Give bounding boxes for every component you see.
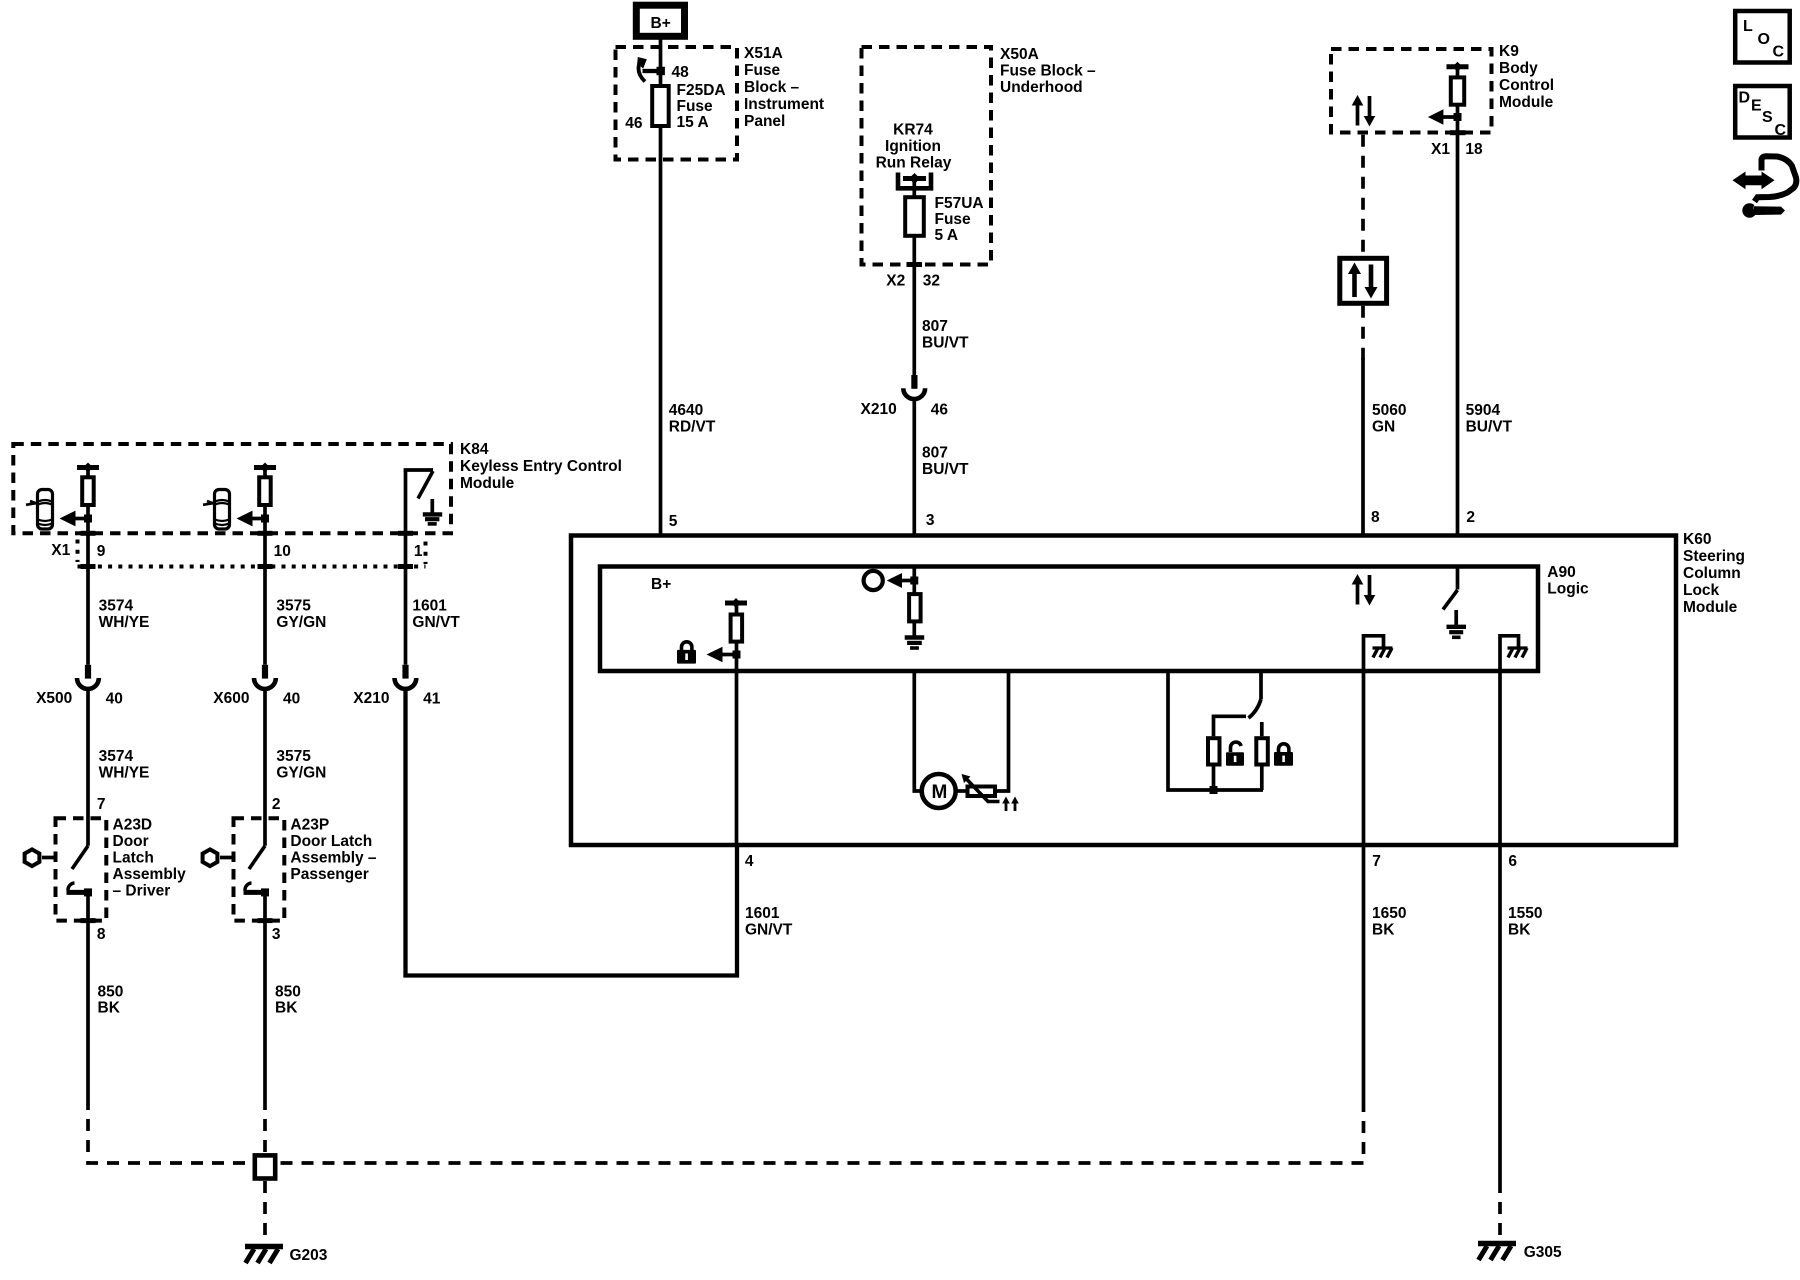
wire pin 6 leg through K60	[1498, 671, 1502, 845]
resistor lock with open contact stub	[1256, 722, 1268, 790]
svg-text:O: O	[1758, 31, 1770, 48]
svg-text:Block –: Block –	[744, 79, 800, 96]
serial data arrows box on wire 5060	[1340, 258, 1387, 303]
wire 850 passenger lower	[263, 892, 267, 1098]
svg-text:K84: K84	[460, 441, 489, 458]
svg-text:X50A: X50A	[1000, 46, 1039, 63]
car icon driver	[26, 490, 53, 530]
svg-text:3575: 3575	[276, 598, 311, 615]
svg-text:X500: X500	[36, 690, 72, 707]
svg-text:GN/VT: GN/VT	[412, 614, 460, 631]
svg-text:K9: K9	[1499, 43, 1519, 60]
svg-text:Instrument: Instrument	[744, 96, 824, 113]
serial data arrows inside A90	[1352, 574, 1376, 606]
dashed ground wire 1550 K60 pin 6	[1498, 845, 1502, 1181]
svg-text:C: C	[1773, 44, 1785, 61]
svg-text:S: S	[1762, 109, 1773, 126]
K9 label	[1499, 43, 1554, 111]
splice S-box	[255, 1155, 275, 1178]
lock output terminal and resistor inside A90	[725, 598, 747, 642]
connector X210 pin 46 inline	[861, 375, 949, 419]
svg-text:3574: 3574	[99, 748, 134, 765]
svg-text:9: 9	[97, 543, 106, 560]
wire motor to thermistor	[956, 789, 966, 793]
svg-text:X600: X600	[213, 690, 249, 707]
svg-text:K60: K60	[1683, 531, 1711, 548]
chassis ground right inside A90	[1500, 636, 1528, 671]
svg-text:BK: BK	[98, 1000, 121, 1017]
svg-text:BU/VT: BU/VT	[922, 461, 969, 478]
tick pin 1	[398, 531, 413, 536]
svg-text:Door: Door	[113, 833, 149, 850]
wire 5904 K9 to K60 pin 2	[1456, 117, 1460, 536]
svg-text:M: M	[932, 782, 948, 803]
svg-text:WH/YE: WH/YE	[99, 765, 150, 782]
motor leg left wire	[914, 671, 921, 791]
X1 pin labels	[51, 542, 423, 560]
svg-text:BK: BK	[1508, 922, 1531, 939]
ground symbol inside K84	[423, 499, 442, 524]
tick pin 3	[258, 918, 273, 923]
svg-text:7: 7	[97, 796, 106, 813]
arrow to car driver with junction	[60, 505, 93, 533]
svg-text:46: 46	[931, 402, 949, 419]
svg-text:Panel: Panel	[744, 113, 785, 130]
svg-text:GY/GN: GY/GN	[276, 614, 326, 631]
svg-text:Assembly –: Assembly –	[290, 850, 377, 867]
X50A label	[1000, 46, 1096, 96]
K9 serial data arrows	[1352, 95, 1376, 127]
svg-text:850: 850	[275, 984, 301, 1001]
keyless entry control module K84 dashed box	[13, 444, 451, 533]
svg-text:7: 7	[1372, 853, 1381, 870]
svg-text:Module: Module	[1683, 599, 1738, 616]
svg-text:BU/VT: BU/VT	[1466, 419, 1513, 436]
door latch assembly passenger A23P dashed box	[234, 818, 285, 920]
wire 3574 X500 to door latch driver	[86, 689, 90, 846]
svg-text:Module: Module	[460, 475, 515, 492]
svg-text:10: 10	[274, 543, 291, 560]
latch contact passenger	[244, 883, 270, 896]
svg-text:A23P: A23P	[290, 817, 329, 834]
svg-text:G203: G203	[290, 1247, 328, 1264]
logic block A90 box	[600, 567, 1538, 672]
A23D label	[113, 817, 187, 900]
wire 4640 B+ to K60 pin 5	[659, 39, 663, 536]
svg-text:48: 48	[672, 64, 690, 81]
svg-text:5 A: 5 A	[935, 227, 959, 244]
svg-text:Passenger: Passenger	[290, 866, 368, 883]
wire K60 pin 4 leg from lock junction	[735, 655, 739, 846]
svg-text:3: 3	[926, 512, 935, 529]
connector X600 pin 40 inline	[213, 665, 300, 708]
svg-text:3: 3	[272, 926, 281, 943]
wire 5060 dashed from K9	[1361, 135, 1365, 256]
svg-text:RD/VT: RD/VT	[669, 419, 716, 436]
motor M	[922, 774, 956, 808]
svg-text:Door Latch: Door Latch	[290, 833, 372, 850]
svg-text:Ignition: Ignition	[885, 138, 941, 155]
fuse block X50A dashed box	[862, 47, 992, 265]
dashed ground wire driver to splice	[88, 1098, 250, 1163]
svg-text:D: D	[1739, 90, 1751, 107]
arrow to car passenger with junction	[237, 505, 270, 533]
relay KR74 contact symbol	[898, 173, 931, 189]
switch to ground inside A90 pin 2 leg	[1443, 567, 1466, 638]
svg-text:807: 807	[922, 445, 948, 462]
lock actuator switch leg	[1168, 671, 1263, 790]
svg-text:4640: 4640	[669, 402, 703, 419]
svg-text:6: 6	[1508, 853, 1517, 870]
wire thermistor back to A90	[997, 671, 1009, 791]
svg-text:F57UA: F57UA	[935, 195, 984, 212]
svg-text:40: 40	[106, 691, 123, 708]
fuse block X51A dashed box	[616, 47, 738, 160]
relay KR74 label	[876, 122, 952, 172]
dashed ground wire 1650 K60 pin 7	[1362, 845, 1366, 1100]
svg-text:C: C	[1775, 122, 1787, 139]
svg-text:E: E	[1751, 98, 1762, 115]
temperature arrows	[1002, 797, 1019, 812]
svg-text:BU/VT: BU/VT	[922, 335, 969, 352]
tick pin 8	[81, 918, 96, 923]
svg-text:X210: X210	[353, 690, 389, 707]
svg-text:Fuse Block –: Fuse Block –	[1000, 63, 1096, 80]
resistor to ground inside A90	[905, 594, 925, 648]
connector X210 pin 41 inline	[353, 665, 440, 708]
svg-text:2: 2	[1466, 509, 1475, 526]
svg-text:1550: 1550	[1508, 905, 1542, 922]
wire 5060 dashed below box	[1361, 306, 1365, 360]
svg-text:1650: 1650	[1372, 905, 1406, 922]
wire 5060 solid to K60 pin 8	[1361, 358, 1365, 536]
svg-text:BK: BK	[275, 1000, 298, 1017]
X51A label	[744, 45, 824, 130]
svg-text:46: 46	[625, 115, 643, 132]
svg-text:X1: X1	[1431, 141, 1450, 158]
svg-text:KR74: KR74	[893, 122, 933, 139]
dashed wire splice to G203	[263, 1181, 267, 1243]
door latch assembly driver A23D dashed box	[56, 818, 107, 920]
svg-text:– Driver: – Driver	[113, 883, 171, 900]
svg-text:X2: X2	[886, 273, 905, 290]
terminal tick X1 18	[1450, 130, 1466, 135]
A90 label	[1547, 564, 1589, 598]
wire 3575 K84 to X600	[258, 533, 273, 665]
bolt symbol driver	[25, 849, 56, 866]
switch blade passenger	[249, 846, 265, 869]
terminal and resistor passenger unlock leg	[254, 463, 276, 506]
svg-text:3575: 3575	[276, 748, 311, 765]
svg-text:B+: B+	[651, 15, 671, 32]
svg-text:40: 40	[283, 691, 300, 708]
svg-text:3574: 3574	[99, 598, 134, 615]
svg-text:Body: Body	[1499, 60, 1538, 77]
connector X1 dotted strip	[78, 540, 426, 567]
svg-text:8: 8	[97, 926, 106, 943]
terminal and resistor driver lock leg	[77, 463, 99, 506]
svg-text:18: 18	[1465, 141, 1483, 158]
svg-text:Steering: Steering	[1683, 548, 1745, 565]
steering column lock module K60 box	[571, 536, 1676, 846]
svg-text:GN/VT: GN/VT	[745, 922, 793, 939]
thermistor PTC	[962, 774, 1000, 802]
DESC reference box	[1735, 86, 1790, 139]
svg-text:Underhood: Underhood	[1000, 79, 1083, 96]
svg-text:4: 4	[745, 853, 754, 870]
svg-text:Run Relay: Run Relay	[876, 155, 952, 172]
svg-text:Fuse: Fuse	[677, 98, 714, 115]
svg-text:G305: G305	[1524, 1244, 1562, 1261]
fuse F25DA 15A	[625, 82, 725, 132]
K84 ground switch leg	[404, 470, 433, 533]
tick pin 10	[258, 531, 273, 536]
data link connector diagnostic icon	[1733, 156, 1797, 218]
wire 807 relay to K60 pin 3 upper	[912, 179, 916, 377]
padlock unlocked icon	[1226, 742, 1244, 766]
svg-text:Assembly: Assembly	[113, 866, 187, 883]
terminal 48 arrow into fuse block	[637, 57, 689, 82]
svg-text:GY/GN: GY/GN	[276, 765, 326, 782]
chassis ground left inside A90	[1364, 636, 1393, 671]
resistor unlock with junction	[1208, 738, 1220, 794]
svg-text:8: 8	[1371, 509, 1380, 526]
indicator circle arrow inside A90	[864, 567, 919, 593]
svg-text:850: 850	[98, 984, 124, 1001]
wire 3574 K84 to X500	[81, 533, 96, 665]
svg-text:BK: BK	[1372, 922, 1395, 939]
switch blade driver	[72, 846, 88, 869]
svg-text:5904: 5904	[1466, 402, 1501, 419]
wire pin 7 leg through K60	[1362, 671, 1366, 845]
svg-text:1601: 1601	[412, 598, 447, 615]
svg-text:Control: Control	[1499, 77, 1554, 94]
connector X500 pin 40 inline	[36, 665, 123, 708]
svg-text:L: L	[1743, 18, 1753, 35]
svg-text:Keyless Entry Control: Keyless Entry Control	[460, 458, 622, 475]
wire 1601 X210 down and across to K60 pin 4	[406, 689, 738, 976]
LOC reference box	[1735, 11, 1790, 63]
svg-text:Fuse: Fuse	[744, 62, 781, 79]
tick pin 9	[81, 531, 96, 536]
svg-text:Module: Module	[1499, 94, 1554, 111]
ground G203	[245, 1247, 328, 1265]
svg-text:A23D: A23D	[113, 817, 153, 834]
terminal tick X2 32	[907, 262, 923, 267]
dashed ground wire passenger into splice	[263, 1098, 267, 1152]
svg-text:5060: 5060	[1372, 402, 1406, 419]
svg-text:GN: GN	[1372, 419, 1395, 436]
body control module K9 dashed box	[1331, 49, 1492, 133]
svg-text:F25DA: F25DA	[677, 82, 726, 99]
svg-text:X210: X210	[861, 401, 897, 418]
svg-text:Fuse: Fuse	[935, 211, 972, 228]
wire 807 X210 to K60 pin 3 lower	[912, 399, 916, 536]
ground G305	[1478, 1244, 1562, 1262]
K9 output arrow and junction	[1428, 105, 1462, 125]
svg-text:X51A: X51A	[744, 45, 783, 62]
svg-text:15 A: 15 A	[677, 114, 709, 131]
svg-text:5: 5	[669, 513, 678, 530]
svg-text:Column: Column	[1683, 565, 1741, 582]
K84 label	[460, 441, 622, 492]
svg-text:1601: 1601	[745, 905, 780, 922]
svg-text:B+: B+	[651, 576, 671, 593]
K9 terminal and resistor	[1447, 62, 1469, 105]
padlock locked icon	[1274, 744, 1293, 766]
wire 1601 K84 to X210	[398, 533, 413, 665]
svg-text:807: 807	[922, 318, 948, 335]
svg-text:Latch: Latch	[113, 850, 154, 867]
lock arrow junction and padlock locked icon	[677, 642, 741, 664]
K60 label	[1683, 531, 1745, 616]
svg-text:X1: X1	[51, 542, 70, 559]
wire 850 driver lower	[86, 892, 90, 1098]
svg-text:2: 2	[272, 796, 281, 813]
svg-text:Logic: Logic	[1547, 581, 1589, 598]
battery feed B+ terminal	[636, 5, 684, 36]
car icon passenger	[203, 490, 230, 530]
svg-text:WH/YE: WH/YE	[99, 614, 150, 631]
svg-text:1: 1	[414, 543, 423, 560]
svg-text:32: 32	[923, 273, 940, 290]
fuse F57UA 5A	[905, 195, 983, 244]
svg-text:A90: A90	[1547, 564, 1575, 581]
wire 3575 X600 to door latch passenger	[263, 689, 267, 846]
latch contact driver	[67, 883, 93, 896]
svg-text:41: 41	[423, 691, 441, 708]
svg-text:Lock: Lock	[1683, 582, 1720, 599]
bolt symbol passenger	[203, 849, 234, 866]
A23P label	[290, 817, 377, 884]
